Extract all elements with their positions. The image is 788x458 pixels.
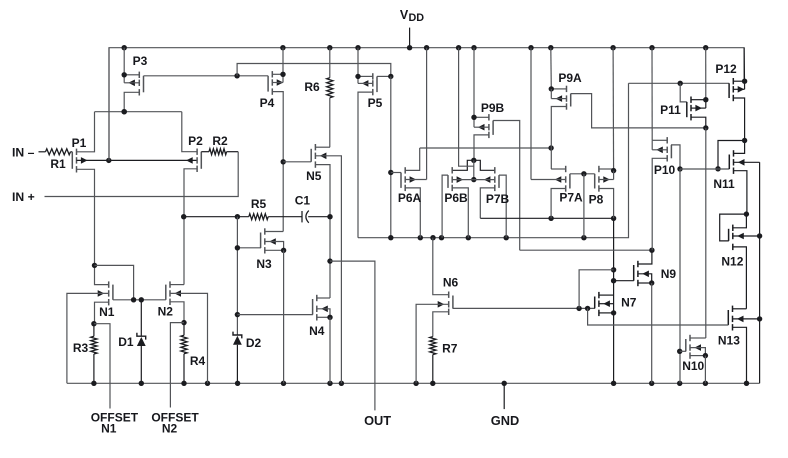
- transistor N10: [680, 335, 708, 384]
- wire N1/N2 gate row: [95, 265, 166, 302]
- transistor P7B: [474, 167, 510, 238]
- transistor P6B: [442, 167, 474, 238]
- svg-text:R7: R7: [442, 342, 458, 356]
- transistor N12: [720, 211, 760, 308]
- svg-text:P11: P11: [660, 103, 681, 117]
- transistor P9A: [549, 48, 582, 169]
- svg-text:D1: D1: [118, 335, 134, 349]
- capacitor C1: [295, 194, 333, 223]
- wire P1/P2 source rail: [95, 109, 182, 114]
- wire P9B gate to N9 drain: [520, 248, 655, 253]
- node OFFSET N2: [151, 323, 199, 436]
- transistor N13: [718, 306, 760, 384]
- wire N4 gate line: [237, 314, 313, 316]
- svg-text:N12: N12: [721, 255, 743, 269]
- svg-text:R5: R5: [251, 197, 267, 211]
- svg-text:R2: R2: [212, 134, 228, 148]
- svg-text:N11: N11: [713, 177, 735, 191]
- svg-text:P6A: P6A: [398, 191, 422, 205]
- svg-text:N13: N13: [718, 334, 740, 348]
- wire P1-P2 bulk line: [77, 158, 198, 163]
- wire N3 gate / D2 column: [235, 217, 240, 335]
- svg-text:V: V: [400, 8, 409, 22]
- wire bias line: [358, 83, 629, 240]
- transistor N11: [713, 141, 759, 215]
- svg-text:N2: N2: [158, 305, 174, 319]
- wire bulk line to VDD rail: [108, 48, 110, 161]
- transistor P2: [182, 112, 203, 285]
- svg-text:P12: P12: [715, 62, 737, 76]
- resistor R5: [181, 197, 302, 220]
- wire P4 drain / N5 gate / N3 drain column: [272, 92, 311, 232]
- wire N6/N7 gate line: [453, 270, 614, 311]
- transistor P3: [122, 48, 148, 115]
- svg-text:P1: P1: [72, 136, 87, 150]
- transistor P10: [652, 48, 683, 251]
- svg-text:R4: R4: [190, 354, 206, 368]
- node OFFSET N1: [91, 324, 139, 436]
- svg-text:N3: N3: [256, 257, 272, 271]
- transistor P9B: [471, 48, 520, 251]
- svg-text:N7: N7: [621, 295, 637, 309]
- svg-text:P3: P3: [133, 54, 148, 68]
- transistor N6: [416, 238, 458, 384]
- transistor N4: [309, 295, 333, 384]
- wire P7A/P8 gate hooks: [570, 171, 595, 238]
- svg-text:N9: N9: [661, 267, 677, 281]
- transistor N1: [67, 263, 115, 384]
- svg-text:N1: N1: [101, 422, 117, 436]
- wire P5 gate/drain bias column: [388, 76, 393, 237]
- node IN+: [12, 152, 238, 204]
- svg-text:OUT: OUT: [364, 413, 391, 428]
- wire P10/N10 gate column: [677, 169, 682, 383]
- resistor R1: [46, 149, 73, 171]
- transistor P6A: [391, 48, 427, 238]
- svg-text:IN +: IN +: [12, 190, 35, 204]
- svg-text:N1: N1: [99, 305, 115, 319]
- svg-text:D2: D2: [246, 336, 262, 350]
- wire output node: [327, 258, 375, 410]
- node VDD: [400, 8, 424, 48]
- transistor P5: [355, 48, 393, 238]
- wire GND bottom rail: [67, 381, 760, 386]
- transistor N7: [595, 292, 637, 316]
- diode D2: [233, 332, 261, 384]
- transistor N5: [306, 144, 341, 383]
- wire N13 gate line: [588, 308, 729, 325]
- svg-text:DD: DD: [409, 12, 425, 24]
- wire P12/N11 drain-gate jog: [680, 141, 745, 172]
- svg-text:P2: P2: [188, 134, 203, 148]
- transistor N9: [614, 250, 677, 383]
- svg-text:P6B: P6B: [444, 191, 468, 205]
- svg-text:N5: N5: [306, 169, 322, 183]
- wire P6A/P9A/P7A drain link: [420, 145, 554, 150]
- svg-text:IN –: IN –: [12, 146, 35, 160]
- wire P3/P4 gate line: [144, 64, 391, 79]
- transistor P4: [260, 48, 286, 110]
- node GND: [491, 383, 519, 428]
- svg-text:R1: R1: [50, 157, 66, 171]
- wire P11/P12 gate line: [629, 81, 730, 102]
- svg-text:N10: N10: [682, 359, 704, 373]
- resistor R2: [201, 134, 238, 155]
- resistor R6: [304, 48, 333, 148]
- diode D1: [118, 300, 145, 384]
- transistor P12: [715, 48, 747, 144]
- wire bulk column right edge: [757, 162, 762, 383]
- resistor R4: [181, 323, 206, 384]
- wire P6B/P7B bulk feed: [459, 48, 477, 183]
- transistor P11: [660, 48, 708, 128]
- svg-text:P9A: P9A: [558, 71, 582, 85]
- wire P9A gate line: [571, 94, 709, 131]
- svg-text:N2: N2: [162, 422, 178, 436]
- wire second stage drive line: [480, 216, 616, 221]
- svg-text:P8: P8: [589, 193, 604, 207]
- transistor N3: [237, 228, 286, 383]
- transistor N2: [158, 281, 208, 383]
- wire P8 drain column: [611, 218, 616, 383]
- transistor P7A: [531, 48, 583, 219]
- svg-text:R3: R3: [73, 341, 89, 355]
- transistor P1: [72, 112, 95, 266]
- resistor R3: [73, 324, 97, 384]
- svg-text:N4: N4: [309, 324, 325, 338]
- svg-text:P7B: P7B: [486, 192, 510, 206]
- wire VDD top rail: [109, 45, 744, 160]
- transistor P8: [589, 48, 617, 219]
- svg-text:P10: P10: [654, 163, 676, 177]
- svg-text:N6: N6: [443, 275, 459, 289]
- wire P9B source staircase to P6B/P7B: [452, 160, 495, 170]
- node IN-: [12, 146, 46, 160]
- svg-text:P7A: P7A: [559, 191, 583, 205]
- svg-text:P4: P4: [260, 96, 275, 110]
- wire P11 drain / N10 drain column: [705, 128, 707, 338]
- svg-text:GND: GND: [491, 413, 519, 428]
- resistor R7: [430, 337, 458, 384]
- svg-text:P5: P5: [368, 96, 383, 110]
- svg-text:R6: R6: [304, 80, 320, 94]
- svg-text:C1: C1: [295, 194, 311, 208]
- svg-text:P9B: P9B: [481, 101, 505, 115]
